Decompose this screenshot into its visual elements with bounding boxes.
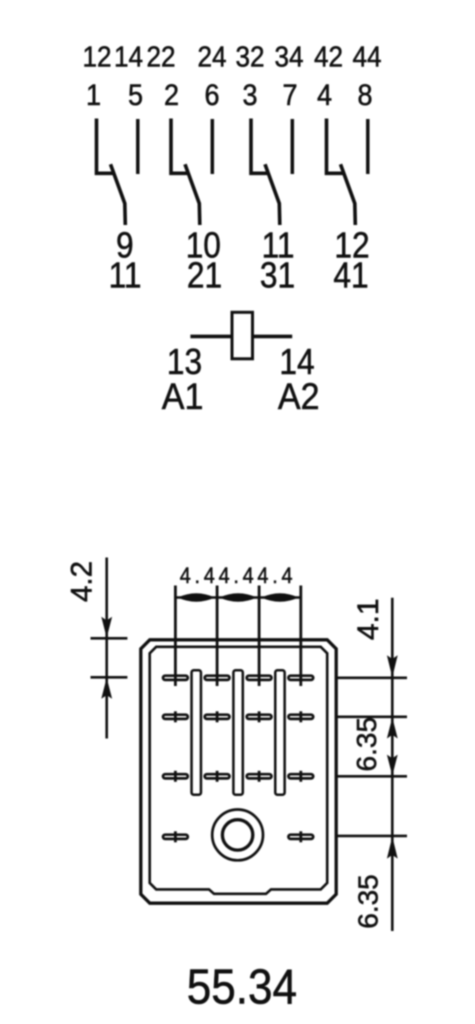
svg-text:11: 11 [109,256,142,296]
svg-text:4.2: 4.2 [66,561,99,602]
svg-text:32: 32 [235,40,264,73]
svg-text:5: 5 [128,79,143,113]
svg-text:8: 8 [357,79,372,113]
svg-text:4.44.44.4: 4.44.44.4 [180,564,297,588]
svg-text:6.35: 6.35 [353,874,384,929]
svg-text:2: 2 [164,79,179,113]
svg-text:22: 22 [146,40,175,73]
svg-text:41: 41 [333,256,368,296]
svg-text:6.35: 6.35 [351,717,382,772]
svg-text:55.34: 55.34 [187,959,297,1014]
svg-text:31: 31 [260,256,295,296]
svg-text:6: 6 [204,79,219,113]
svg-text:44: 44 [352,40,381,73]
svg-text:3: 3 [242,79,257,113]
svg-text:42: 42 [314,40,343,73]
svg-text:14: 14 [114,40,143,73]
svg-text:A2: A2 [278,376,320,418]
svg-text:34: 34 [274,40,303,73]
svg-text:21: 21 [187,256,222,296]
svg-text:4.1: 4.1 [352,598,385,640]
svg-text:12: 12 [82,40,111,73]
svg-text:A1: A1 [162,376,204,418]
svg-text:7: 7 [282,79,297,113]
svg-text:4: 4 [317,79,332,113]
svg-text:1: 1 [86,79,101,113]
svg-text:24: 24 [197,40,226,73]
